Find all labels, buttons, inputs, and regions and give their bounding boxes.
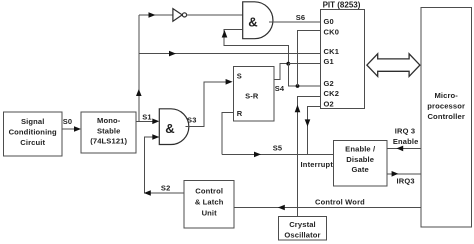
box Signal Conditioning Circuit xyxy=(4,112,63,156)
svg-text:Gate: Gate xyxy=(352,165,369,174)
wire IRQ3 xyxy=(387,171,421,186)
wire IRQ3 Enable xyxy=(387,127,421,152)
svg-text:CK1: CK1 xyxy=(324,47,340,56)
svg-text:(74LS121): (74LS121) xyxy=(90,137,127,146)
wire S4 from S-R output xyxy=(274,64,289,93)
svg-text:S-R: S-R xyxy=(245,92,259,101)
inverter NOT gate xyxy=(173,9,187,22)
node junction dot2 xyxy=(296,84,300,88)
wire O2 down xyxy=(305,107,321,155)
svg-text:Enable /: Enable / xyxy=(345,145,376,154)
svg-text:G1: G1 xyxy=(324,57,334,66)
svg-text:Conditioning: Conditioning xyxy=(9,128,57,137)
svg-text:PIT (8253): PIT (8253) xyxy=(323,1,361,10)
svg-text:Micro-: Micro- xyxy=(434,91,458,100)
svg-text:S6: S6 xyxy=(296,13,306,22)
wire NOT gate input xyxy=(139,12,173,18)
wire Control Word xyxy=(234,198,421,211)
svg-text:& Latch: & Latch xyxy=(195,198,224,207)
box Micro-processor Controller xyxy=(421,8,472,227)
and-gate U1 top xyxy=(243,2,273,39)
svg-text:Control Word: Control Word xyxy=(315,198,365,207)
box Control & Latch Unit xyxy=(184,181,234,229)
wire S4 branch to AND U1 input xyxy=(222,30,289,64)
svg-text:R: R xyxy=(237,109,243,118)
svg-text:Unit: Unit xyxy=(202,209,218,218)
wire CK0 branch xyxy=(298,31,321,86)
svg-text:IRQ3: IRQ3 xyxy=(397,177,415,186)
svg-text:Oscillator: Oscillator xyxy=(284,230,320,239)
svg-text:Signal: Signal xyxy=(21,117,45,126)
wire G1 xyxy=(288,63,320,65)
svg-text:Interrupt: Interrupt xyxy=(301,160,334,169)
svg-text:Circuit: Circuit xyxy=(20,138,45,147)
svg-text:processor: processor xyxy=(427,102,465,111)
svg-text:Crystal: Crystal xyxy=(289,220,316,229)
wire S1 riser to NOT gate xyxy=(136,15,142,121)
svg-text:&: & xyxy=(248,14,257,29)
box S-R latch xyxy=(234,66,274,121)
svg-text:Disable: Disable xyxy=(346,155,374,164)
wire riser dot1 to G2 row xyxy=(288,64,320,86)
wire crystal to CK2 xyxy=(295,97,321,217)
box Enable / Disable Gate xyxy=(334,141,387,186)
svg-text:Stable: Stable xyxy=(97,126,121,135)
svg-text:S4: S4 xyxy=(275,84,285,93)
svg-text:O2: O2 xyxy=(324,100,334,109)
svg-text:Control: Control xyxy=(195,187,223,196)
svg-text:IRQ 3: IRQ 3 xyxy=(395,127,416,136)
wire S3 to S input xyxy=(186,79,233,127)
svg-text:S: S xyxy=(237,72,242,81)
wire S0 xyxy=(62,117,81,132)
svg-text:Controller: Controller xyxy=(427,112,464,121)
and-gate U4 middle xyxy=(159,109,189,145)
wire S2 xyxy=(144,134,184,196)
wire NOT output to AND U1 xyxy=(187,14,243,16)
svg-text:S1: S1 xyxy=(142,112,152,121)
wire S5 / interrupt xyxy=(222,144,334,169)
svg-text:G2: G2 xyxy=(324,79,334,88)
box PIT (8253) xyxy=(320,1,364,109)
svg-text:CK0: CK0 xyxy=(324,27,340,36)
wire S6 xyxy=(269,13,320,22)
wire S1 xyxy=(136,112,159,124)
svg-text:CK2: CK2 xyxy=(324,89,340,98)
svg-text:S0: S0 xyxy=(63,117,73,126)
svg-text:Enable: Enable xyxy=(393,137,419,146)
wire S3 stub from gate xyxy=(186,126,205,128)
node junction dot1 xyxy=(286,62,290,66)
box Mono-Stable (74LS121) xyxy=(81,112,136,153)
svg-text:Mono-: Mono- xyxy=(97,116,121,125)
wire CK1 long line xyxy=(139,51,321,57)
bus double arrow xyxy=(367,54,420,77)
svg-text:&: & xyxy=(165,121,174,136)
svg-text:S5: S5 xyxy=(273,144,283,153)
box Crystal Oscillator xyxy=(279,217,327,240)
svg-text:S2: S2 xyxy=(161,183,171,192)
svg-text:G0: G0 xyxy=(324,17,334,26)
wire R input riser xyxy=(222,113,234,155)
